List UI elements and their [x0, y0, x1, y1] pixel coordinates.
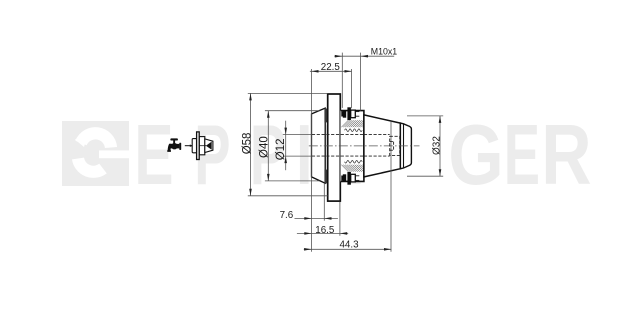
svg-text:44.3: 44.3 — [339, 239, 359, 250]
svg-text:22.5: 22.5 — [321, 62, 341, 73]
svg-text:Ø32: Ø32 — [432, 136, 443, 155]
svg-text:E: E — [504, 108, 540, 203]
svg-text:M10x1: M10x1 — [371, 47, 398, 57]
svg-text:R: R — [541, 108, 591, 202]
svg-text:Ø58: Ø58 — [242, 133, 254, 155]
svg-text:7.6: 7.6 — [280, 210, 294, 221]
svg-text:I: I — [296, 107, 313, 202]
svg-text:Ø40: Ø40 — [259, 136, 271, 158]
svg-text:G: G — [448, 107, 504, 202]
svg-text:16.5: 16.5 — [315, 225, 335, 236]
svg-text:Ø12: Ø12 — [275, 138, 287, 160]
svg-text:E: E — [134, 108, 173, 202]
